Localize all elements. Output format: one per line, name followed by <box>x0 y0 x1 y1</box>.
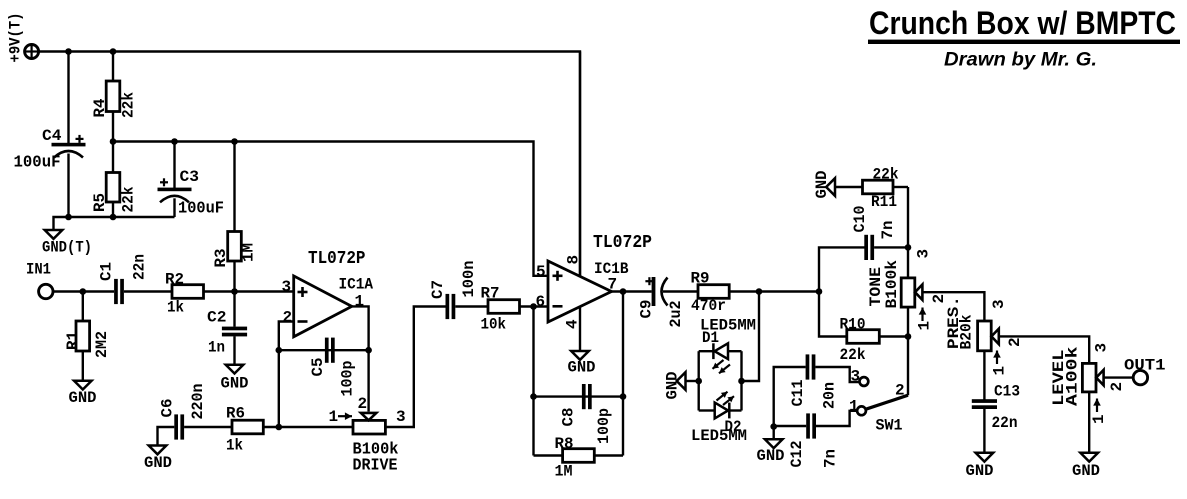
D2 emission arrows <box>717 392 728 401</box>
wire pot pin3 up to C7 <box>385 307 447 428</box>
svg-text:C13: C13 <box>994 383 1020 401</box>
ground GND(T) <box>45 230 63 239</box>
svg-text:2: 2 <box>1108 382 1126 392</box>
op-amp IC1A TL072P <box>294 276 352 337</box>
svg-text:OUT1: OUT1 <box>1124 357 1166 375</box>
svg-text:R2: R2 <box>165 271 184 289</box>
svg-text:GND: GND <box>813 171 831 199</box>
wire C1 to R2 <box>124 290 172 292</box>
capacitor C9 2u2 (polarized) <box>652 277 656 306</box>
switch pole circles <box>860 377 869 386</box>
ground (IC1B pin4) <box>571 351 589 360</box>
wire tone wiper to pres <box>922 292 984 321</box>
svg-text:2: 2 <box>895 382 905 400</box>
wire R11 branch <box>907 187 909 278</box>
svg-text:100n: 100n <box>460 261 478 298</box>
svg-text:3: 3 <box>1093 343 1111 353</box>
potentiometer LEVEL A100k <box>1082 363 1096 392</box>
svg-text:GND: GND <box>1072 462 1100 480</box>
capacitor C12 7n <box>806 413 810 438</box>
wire C10 to R11 node <box>874 246 908 248</box>
svg-text:C5: C5 <box>309 358 327 377</box>
svg-text:1M: 1M <box>555 463 573 481</box>
resistor R8 1M <box>534 454 563 456</box>
wire C8 row <box>534 395 624 397</box>
ground (C2) <box>226 365 244 374</box>
resistor R7 10k <box>488 300 520 314</box>
junction top rail / R4 <box>110 48 117 55</box>
junction signal/C10/R10 <box>816 288 823 295</box>
polarity + of C3 <box>160 181 168 183</box>
svg-text:DRIVE: DRIVE <box>353 457 398 476</box>
svg-text:C3: C3 <box>180 168 200 186</box>
svg-text:GND(T): GND(T) <box>42 239 92 257</box>
junction pin6/feedback <box>530 303 537 310</box>
svg-text:GND: GND <box>69 389 97 407</box>
svg-text:C9: C9 <box>638 300 656 319</box>
LED D2 (points right) <box>728 403 731 419</box>
node +9V(T) terminal <box>25 45 39 59</box>
resistor R3 1M <box>233 142 235 232</box>
resistor R5 22k <box>112 142 114 173</box>
svg-text:R3: R3 <box>212 249 230 268</box>
ground (LED) <box>677 372 686 390</box>
capacitor C3 100uF <box>173 142 175 190</box>
svg-text:7n: 7n <box>822 449 840 468</box>
svg-text:R10: R10 <box>840 316 866 334</box>
svg-text:C6: C6 <box>159 399 177 418</box>
wire R6 to pot pin1 <box>263 426 353 428</box>
junction R6/feedback <box>276 424 283 431</box>
svg-text:2: 2 <box>358 395 368 413</box>
svg-text:SW1: SW1 <box>876 417 903 435</box>
svg-text:C12: C12 <box>788 441 806 468</box>
svg-text:GND: GND <box>568 359 596 377</box>
svg-text:1k: 1k <box>167 299 184 317</box>
svg-text:220n: 220n <box>189 384 207 420</box>
svg-text:10k: 10k <box>481 316 507 334</box>
wire R4 branch <box>112 52 114 82</box>
svg-text:3: 3 <box>915 249 933 259</box>
polarity + of C4 <box>76 138 84 140</box>
junction vref/C3 <box>171 138 178 145</box>
wire wiper to OUT1 <box>1104 376 1134 378</box>
svg-text:470r: 470r <box>691 297 726 315</box>
svg-text:R6: R6 <box>226 405 245 423</box>
node OUT1 terminal <box>1133 370 1147 384</box>
svg-text:C2: C2 <box>207 309 227 327</box>
junction gnd rail / C4 <box>65 214 72 221</box>
capacitor C13 22n <box>972 399 997 403</box>
svg-text:A100k: A100k <box>1064 346 1082 406</box>
svg-text:IC1A: IC1A <box>339 276 374 294</box>
svg-text:R7: R7 <box>481 285 500 303</box>
switch SW1 lever <box>866 395 909 409</box>
svg-text:GND: GND <box>144 454 172 472</box>
svg-text:3: 3 <box>396 408 406 426</box>
svg-text:C4: C4 <box>42 127 62 145</box>
wire feedback right vertical <box>622 292 624 456</box>
ground (C6) <box>149 446 167 455</box>
svg-text:2: 2 <box>283 309 293 327</box>
svg-text:1: 1 <box>329 408 339 426</box>
wire GND(T) rail <box>54 217 175 230</box>
ground (R11, rotated) <box>826 178 835 196</box>
wire R7 to pin6 <box>520 305 549 307</box>
svg-text:2: 2 <box>1006 337 1024 347</box>
svg-text:C1: C1 <box>98 262 116 281</box>
capacitor C10 7n <box>864 235 868 260</box>
junction LED right <box>738 378 745 385</box>
ground (C11/C12) <box>765 439 783 448</box>
svg-text:R8: R8 <box>555 435 574 453</box>
svg-text:22k: 22k <box>840 346 866 364</box>
svg-text:1: 1 <box>916 321 934 331</box>
wire C12 to SW pin1 <box>816 411 857 426</box>
wire C5 feedback <box>279 349 369 351</box>
polarity + of C9 <box>645 280 653 282</box>
resistor R10 22k <box>819 292 847 337</box>
resistor R6 1k <box>232 420 263 434</box>
svg-text:R1: R1 <box>64 331 82 350</box>
svg-text:6: 6 <box>536 293 546 311</box>
svg-text:3: 3 <box>282 278 292 296</box>
svg-text:1n: 1n <box>208 339 225 357</box>
wire IC1B output <box>612 290 652 292</box>
wire output to drive pot wiper <box>367 350 369 411</box>
wire top rail +9V <box>38 52 580 277</box>
ground (C13) <box>976 453 994 462</box>
svg-text:GND: GND <box>757 447 785 465</box>
resistor R4 22k <box>106 81 120 112</box>
svg-text:LED5MM: LED5MM <box>691 427 747 445</box>
wire vref rail <box>113 142 549 276</box>
svg-text:TL072P: TL072P <box>308 249 366 269</box>
LED bridge frame <box>698 351 700 410</box>
capacitor C11 20n <box>806 354 810 379</box>
potentiometer PRES. B20k <box>978 321 992 351</box>
svg-text:5: 5 <box>536 263 546 281</box>
wire IN1 to C1 <box>52 290 114 292</box>
LED D1 (points left) <box>712 343 715 359</box>
svg-text:100uF: 100uF <box>178 200 224 219</box>
potentiometer B100k DRIVE <box>353 420 385 434</box>
svg-text:C11: C11 <box>789 380 807 407</box>
resistor R9 470r <box>698 285 729 299</box>
svg-text:C7: C7 <box>429 280 447 299</box>
wire C12 left <box>774 425 807 427</box>
wire C11 left <box>774 367 806 427</box>
capacitor C2 1n <box>233 292 235 327</box>
wire level pin1 to gnd <box>1088 392 1090 453</box>
wire C13 to gnd <box>983 409 985 453</box>
capacitor C6 220n <box>174 414 178 439</box>
wire R9 to tone stack <box>729 290 819 292</box>
wire C11 to SW pin3 <box>815 367 859 382</box>
svg-text:C8: C8 <box>560 408 578 427</box>
svg-text:20n: 20n <box>821 382 839 409</box>
svg-text:R9: R9 <box>691 270 710 288</box>
wire to gnd <box>773 427 775 440</box>
wire tone pot pin1 to SW <box>907 307 909 395</box>
junction C10/R11/pot3 <box>905 244 912 251</box>
junction C11/C12 gnd <box>770 423 777 430</box>
capacitor C4 100uF <box>52 143 86 147</box>
ground (LEVEL) <box>1080 453 1098 462</box>
svg-text:22k: 22k <box>120 92 138 118</box>
svg-text:D1: D1 <box>702 329 719 347</box>
junction IN1/R1 <box>80 288 87 295</box>
junction C8 right <box>620 393 627 400</box>
node IN1 terminal <box>39 284 53 298</box>
svg-text:R5: R5 <box>91 193 109 212</box>
svg-text:2u2: 2u2 <box>667 301 685 328</box>
junction C8 left <box>530 393 537 400</box>
op-amp IC1B TL072P <box>548 261 612 322</box>
wire pres pin1 to C13 <box>983 351 985 400</box>
wire C7 to R7 <box>455 305 488 307</box>
svg-text:IN1: IN1 <box>26 261 51 279</box>
svg-text:22n: 22n <box>992 414 1018 432</box>
svg-text:R11: R11 <box>871 193 897 211</box>
wire C4 branch <box>67 52 69 145</box>
svg-text:22k: 22k <box>873 166 899 184</box>
junction R10/pot1/SW <box>905 333 912 340</box>
capacitor C7 100n <box>446 294 450 319</box>
resistor R2 1k <box>172 285 204 299</box>
junction LED left / GND <box>695 378 702 385</box>
svg-text:1: 1 <box>355 293 365 311</box>
svg-text:1k: 1k <box>226 437 243 455</box>
svg-text:1: 1 <box>991 366 1009 376</box>
wire up to C10 <box>819 247 865 291</box>
junction pin2/C5 <box>276 347 283 354</box>
svg-text:22n: 22n <box>131 254 149 280</box>
resistor R1 2M2 <box>82 292 84 322</box>
svg-text:Drawn by Mr. G.: Drawn by Mr. G. <box>944 50 1097 71</box>
capacitor C1 22n <box>114 279 118 304</box>
svg-text:C10: C10 <box>851 206 869 233</box>
svg-text:1M: 1M <box>240 243 258 262</box>
junction vref/R3 <box>231 138 238 145</box>
junction C5/out <box>365 347 372 354</box>
D1 emission arrows <box>713 360 724 369</box>
ground (R1) <box>74 381 92 390</box>
svg-text:Crunch Box w/ BMPTC: Crunch Box w/ BMPTC <box>869 5 1176 41</box>
wire pin2 <box>279 322 294 351</box>
junction R2/R3/C2 <box>231 288 238 295</box>
title underline <box>868 40 1180 44</box>
svg-text:2M2: 2M2 <box>93 331 111 358</box>
wire C6 to R6 <box>184 426 232 428</box>
svg-text:100p: 100p <box>339 361 357 397</box>
junction vref/R4-R5 <box>110 138 117 145</box>
junction output/feedback <box>620 288 627 295</box>
wire LED branch down <box>742 292 760 382</box>
junction top rail / C4 <box>65 48 72 55</box>
svg-text:3: 3 <box>990 299 1008 309</box>
svg-text:100p: 100p <box>595 408 613 444</box>
capacitor C5 100p <box>325 338 329 363</box>
wire feedback down to pot pin1 line <box>278 350 280 427</box>
svg-text:7n: 7n <box>879 221 897 240</box>
svg-text:22k: 22k <box>120 186 138 212</box>
junction R9/LED branch <box>756 288 763 295</box>
svg-text:GND: GND <box>221 375 249 393</box>
svg-text:B100k: B100k <box>883 260 901 309</box>
wire R2 to opamp pin3 <box>204 290 295 292</box>
svg-text:R4: R4 <box>91 98 109 117</box>
svg-text:1: 1 <box>1090 414 1108 424</box>
svg-text:+9V(T): +9V(T) <box>7 13 25 63</box>
resistor R11 22k <box>863 180 894 194</box>
potentiometer TONE B100k <box>901 278 915 307</box>
junction gnd rail / R5 <box>110 214 117 221</box>
capacitor C8 100p <box>582 384 586 409</box>
wire C6 left <box>158 427 175 446</box>
wire pres wiper to level <box>999 336 1089 363</box>
svg-text:100uF: 100uF <box>14 154 61 173</box>
wire feedback left vertical <box>532 307 534 456</box>
svg-text:GND: GND <box>966 462 994 480</box>
svg-text:B20k: B20k <box>958 314 976 349</box>
svg-text:TL072P: TL072P <box>593 233 652 253</box>
wire IC1A output <box>352 306 369 350</box>
svg-text:GND: GND <box>664 372 682 400</box>
